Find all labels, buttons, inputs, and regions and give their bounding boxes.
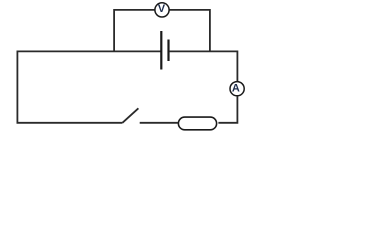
cell long plate bbox=[160, 31, 162, 70]
wire main top-right bbox=[169, 51, 237, 81]
switch bbox=[122, 108, 138, 123]
cell short plate bbox=[167, 40, 169, 62]
wire right vertical below ammeter bbox=[218, 96, 237, 123]
svg-text:V: V bbox=[158, 3, 166, 15]
wire bottom left bbox=[17, 122, 123, 124]
wire main top-left bbox=[17, 51, 160, 122]
wire voltmeter branch top-right segment bbox=[169, 10, 210, 52]
wire voltmeter branch top-left segment bbox=[114, 10, 155, 52]
resistor bbox=[178, 117, 216, 130]
voltmeter bbox=[155, 3, 169, 17]
ammeter bbox=[230, 82, 244, 96]
wire bottom middle bbox=[140, 122, 178, 124]
svg-text:A: A bbox=[232, 82, 240, 94]
